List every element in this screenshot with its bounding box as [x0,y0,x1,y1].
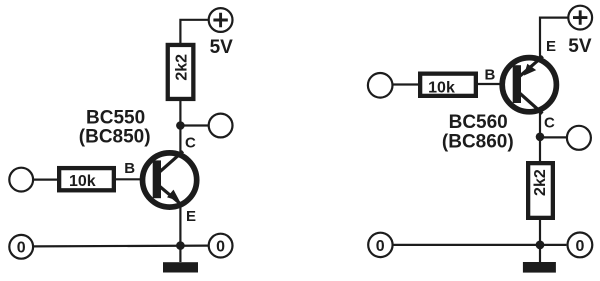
wire from right +5V terminal to emitter of Q2 [540,18,568,59]
resistor R3 10k (right) [420,74,476,97]
transistor Q2 BC560 (PNP) [502,56,556,113]
svg-text:5V: 5V [210,37,234,58]
svg-text:0: 0 [376,238,385,255]
wire R2 to base of Q1 [116,178,158,180]
bottom rail wire (right circuit) [393,244,567,246]
wire from left +5V terminal to resistor R1 [180,20,208,45]
svg-text:BC560: BC560 [449,112,508,133]
output terminal (left) [209,114,233,138]
output terminal (right) [567,126,591,150]
svg-text:10k: 10k [69,173,96,190]
junction node at collector (right) [536,133,545,142]
terminal 0 bottom-right (right circuit) [568,233,593,258]
wire from R1 to transistor Q1 collector [179,99,181,155]
svg-text:2k2: 2k2 [173,54,190,81]
svg-text:C: C [185,135,196,152]
ground (left circuit) [163,262,198,272]
wire R3 to base of Q2 [476,83,518,85]
wire input terminal to resistor R3 [393,83,421,85]
svg-text:2k2: 2k2 [532,169,549,196]
ground (right circuit) [523,262,556,273]
input terminal (left) [9,168,33,192]
bottom rail wire (left circuit) [34,245,208,248]
junction node at collector [176,121,185,130]
svg-text:0: 0 [17,240,26,257]
svg-text:BC550: BC550 [86,107,145,128]
wire junction to output terminal (right) [543,136,567,138]
svg-text:0: 0 [216,238,225,255]
svg-text:E: E [186,208,196,225]
junction node bottom (right circuit) [536,241,545,250]
svg-text:B: B [124,160,135,177]
terminal 0 bottom-left (right circuit) [368,233,392,257]
input terminal (right) [368,73,393,98]
supply terminal +5V (left) [209,8,233,32]
wire Q2 collector down to resistor R4 [539,112,541,164]
svg-text:C: C [544,114,555,131]
svg-text:5V: 5V [568,36,592,57]
wire R4 to ground rail (right) [539,218,541,262]
svg-text:10k: 10k [428,80,455,97]
svg-text:B: B [485,67,496,84]
junction node bottom (left circuit) [176,241,185,250]
svg-text:0: 0 [575,238,584,255]
svg-text:E: E [546,38,556,55]
resistor R2 10k (left) [59,168,114,190]
transistor Q1 BC550 (NPN) [143,151,197,207]
wire from junction to output terminal (left) [183,124,209,126]
wire emitter to ground rail (left) [179,205,181,262]
terminal 0 bottom-left (left circuit) [9,235,33,259]
supply terminal +5V (right) [568,6,592,30]
wire input terminal to resistor R2 [34,179,60,181]
svg-text:(BC850): (BC850) [79,126,151,147]
svg-text:(BC860): (BC860) [442,131,514,152]
resistor R4 2k2 (right, vertical) [528,163,553,218]
terminal 0 bottom-right (left circuit) [209,234,233,258]
resistor R1 2k2 (left, vertical) [168,45,194,99]
